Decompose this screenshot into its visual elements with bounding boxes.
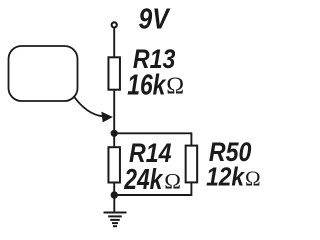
ground [104, 195, 127, 226]
value 12kΩ [206, 163, 245, 192]
wire [113, 133, 115, 147]
resistor R13 [108, 57, 120, 89]
svg-text:Ω: Ω [164, 168, 181, 193]
label R14 [129, 138, 172, 168]
svg-text:16k: 16k [127, 68, 167, 101]
resistor R14 [108, 147, 120, 182]
svg-text:Ω: Ω [245, 166, 261, 190]
wire [190, 132, 192, 145]
wire [113, 28, 115, 57]
callout arrow [74, 96, 113, 122]
label 9V [139, 3, 171, 35]
svg-text:Ω: Ω [166, 74, 184, 100]
node 9V terminal [112, 22, 117, 27]
node bottom junction [111, 191, 118, 198]
wire [190, 182, 192, 196]
value 24kΩ [123, 163, 163, 196]
callout bubble [9, 46, 78, 101]
node A junction [111, 130, 118, 137]
svg-text:12k: 12k [206, 163, 245, 192]
label R13 [133, 44, 176, 74]
wire [114, 132, 191, 134]
wire [113, 90, 115, 133]
wire [113, 182, 115, 195]
value 16kΩ [127, 68, 167, 101]
svg-text:24k: 24k [123, 163, 163, 196]
label R50 [209, 137, 252, 167]
wire [114, 194, 191, 196]
svg-text:9V: 9V [139, 3, 171, 35]
resistor R50 [186, 146, 198, 183]
